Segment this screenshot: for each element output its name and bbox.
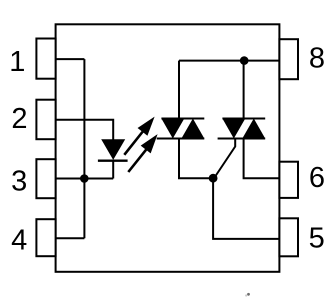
- LED D1 cathode bar: [98, 160, 128, 162]
- junction dot gate node: [209, 174, 218, 183]
- junction dot top node: [240, 56, 249, 65]
- junction dot pins 1-3-4 node: [80, 174, 89, 183]
- IC package body outline: [56, 24, 280, 271]
- phototriac MT1 bottom bar: [157, 138, 205, 140]
- light emission arrow 2 head: [141, 134, 158, 153]
- wire main triac MT1 to pin6: [244, 139, 280, 179]
- svg-text:6: 6: [309, 162, 325, 194]
- wire pin1 to internal vertical: [56, 58, 85, 60]
- svg-text:4: 4: [11, 224, 27, 256]
- pin 2 box: [36, 100, 55, 140]
- wire left phototriac top: [178, 61, 180, 119]
- svg-text:1: 1: [9, 46, 25, 78]
- light emission arrow 2 shaft: [128, 150, 146, 172]
- phototriac up triangle: [181, 119, 204, 139]
- pin 5 box: [279, 218, 298, 256]
- phototriac MT2 top bar: [161, 118, 204, 120]
- main triac MT1 bottom bar: [218, 138, 266, 140]
- main triac MT2 top bar: [222, 118, 265, 120]
- light emission arrow 1 head: [138, 117, 155, 136]
- pin 6 box: [279, 162, 298, 198]
- svg-text:8: 8: [309, 43, 325, 75]
- LED D1 anode triangle: [101, 139, 125, 160]
- wire pin2 to LED anode: [56, 120, 114, 140]
- wire pin3 to LED cathode node: [56, 178, 114, 180]
- stray print dot: [247, 293, 250, 296]
- wire vertical joining pins 1,3,4: [83, 59, 85, 238]
- main triac down triangle: [222, 119, 245, 139]
- wire right triac top from junction: [243, 61, 245, 119]
- wire phototriac bottom down: [179, 139, 213, 179]
- wire LED cathode down to pin3 wire: [112, 161, 114, 179]
- svg-text:5: 5: [309, 223, 325, 255]
- pin 4 box: [36, 219, 55, 256]
- pin 1 box: [36, 39, 55, 79]
- stray print dot faint: [245, 294, 247, 296]
- wire top node: pin8 across to left phototriac: [179, 60, 279, 62]
- wire gate node down to pin5: [213, 178, 279, 239]
- phototriac down triangle: [161, 119, 184, 139]
- main triac gate lead: [215, 139, 236, 178]
- main triac up triangle: [242, 119, 265, 139]
- pin 8 box: [279, 39, 298, 79]
- svg-text:2: 2: [11, 103, 27, 135]
- light emission arrow 1 shaft: [124, 131, 143, 155]
- svg-text:3: 3: [11, 166, 27, 198]
- pin 3 box: [36, 159, 55, 198]
- wire pin4 horizontal: [56, 237, 85, 239]
